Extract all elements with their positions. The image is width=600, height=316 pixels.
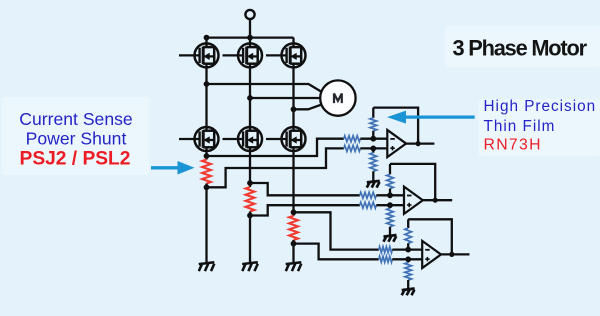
svg-text:3 Phase Motor: 3 Phase Motor bbox=[453, 36, 588, 61]
svg-text:Thin Film: Thin Film bbox=[484, 118, 556, 135]
svg-text:PSJ2 / PSL2: PSJ2 / PSL2 bbox=[20, 148, 131, 169]
svg-text:Power Shunt: Power Shunt bbox=[26, 128, 127, 148]
svg-text:RN73H: RN73H bbox=[484, 137, 542, 154]
svg-text:High Precision: High Precision bbox=[484, 98, 597, 115]
svg-text:Current Sense: Current Sense bbox=[19, 109, 132, 129]
